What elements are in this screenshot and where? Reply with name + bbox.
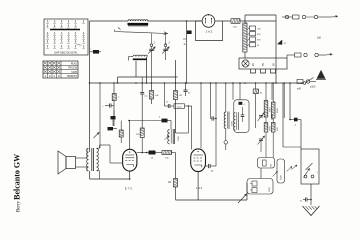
trimmer CT2 [258,136,265,152]
resistor R3 [112,83,120,126]
electrolytic C18 [289,118,301,127]
svg-text:Berry Belcanto GW: Berry Belcanto GW [13,154,22,212]
pointer arrows [287,165,298,172]
svg-text:002: 002 [271,163,273,167]
coil L4 [234,112,239,130]
svg-text:900: 900 [277,127,279,131]
svg-text:RU61: RU61 [71,62,78,65]
svg-text:+1: +1 [294,125,297,127]
wire x283 drop [282,83,284,147]
wire x218 [215,83,217,166]
coil box A [258,158,275,169]
capacitor C8 [102,104,114,109]
wire opt bottom [90,152,100,179]
resistor R21 (tall dropper) [243,21,247,58]
electrolytic C9 [94,127,118,138]
svg-text:891: 891 [257,39,261,41]
label L42 [196,186,203,190]
voltage selector taps [248,26,262,47]
wire x284 drop [283,83,285,118]
capacitor C13 blob [147,151,160,160]
trimmer CT1 [258,113,265,122]
svg-text:a40: a40 [297,89,302,91]
diode D1 [278,40,288,45]
connector tabs [251,69,276,73]
electrolytic C11 [159,117,168,123]
rectifier tube U3 (circle) [202,14,215,27]
label a30 [317,37,322,40]
tube pinout diagram box [44,19,88,55]
svg-text:166: 166 [257,28,261,30]
svg-text:0n05: 0n05 [177,106,182,108]
resistor R9 1M [168,179,178,188]
labels S E S [252,63,276,67]
svg-text:c: c [102,106,104,108]
wire tube1 grid [110,152,123,163]
capacitor C16 [241,107,245,122]
svg-text:4: 4 [159,117,161,119]
svg-text:1M: 1M [168,182,171,184]
electrolytic C9b [111,111,116,127]
tuning cap CV2 [162,33,170,56]
heater loop wire [196,21,223,41]
svg-text:3n: 3n [300,201,303,203]
svg-text:04: 04 [260,93,263,95]
capacitor C19 3n [300,198,311,203]
svg-text:TRORIST: TRORIST [67,75,78,78]
svg-text:4: 4 [244,104,246,106]
svg-text:3000: 3000 [281,174,283,180]
speaker wires [76,158,88,167]
resistor R6 20k [136,128,144,153]
svg-text:1: 1 [44,74,46,78]
svg-text:2: 2 [169,42,171,45]
svg-text:a100: a100 [310,86,316,89]
wire lamp to row2 [286,55,288,58]
capacitor C7 [164,83,174,108]
speaker LS [58,151,76,174]
title Berry Belcanto GW (rotated) [13,154,22,212]
label a40 [297,89,302,91]
label E73 [125,187,132,191]
svg-text:0005: 0005 [269,186,271,192]
svg-text:47: 47 [284,43,287,45]
wire x175 vertical [175,60,177,133]
ground symbol [303,206,320,216]
capacitor C15 [211,83,217,121]
wire osc connections [136,56,166,83]
wire x240 drop [233,83,245,100]
bus junction dots [89,82,303,84]
wire opt top [90,145,111,152]
svg-text:61: 61 [257,45,260,47]
resistor R20 [231,19,240,29]
mains fuse row 1 [282,15,338,19]
capacitor C12 [137,152,148,154]
svg-text:1: 1 [317,172,319,174]
wire box link [283,146,301,148]
mains plug P1 [316,71,326,80]
svg-text:10k: 10k [165,158,169,160]
wire y77 horizontal [118,76,178,78]
tuning cap CV1 [148,33,155,56]
coil box B [247,179,273,195]
svg-text:2W: 2W [179,95,183,97]
tube V2 UCH11 [191,149,206,200]
svg-text:DAF DBC D6 6S RL: DAF DBC D6 6S RL [54,51,78,55]
antenna coil L1 (top choke) [128,20,149,26]
earth row 3 [297,80,316,84]
small tick [118,28,121,30]
coil box L6 [264,83,272,117]
svg-text:TRUCW: TRUCW [68,67,78,70]
svg-text:0: 0 [49,74,51,78]
label 2A2 [206,30,213,34]
svg-text:S: S [272,63,275,67]
power switch box [301,149,319,184]
wire top HT line [90,20,277,22]
coil box L7 [271,83,279,118]
wire main bus [90,82,303,84]
filter box D [234,100,249,133]
coil box L9 [271,118,279,132]
wire screen vertical [117,77,119,83]
oscillator coil L2 [129,55,148,60]
wave switch arrow [238,194,247,203]
svg-text:3000: 3000 [178,135,180,141]
wire top right corner [245,15,276,83]
tube lineup table [43,61,78,78]
svg-text:.7: .7 [118,97,121,99]
osc coil L3 [224,83,234,150]
svg-text:61P6: 61P6 [71,71,77,74]
svg-text:a30: a30 [317,37,322,40]
wire below box [310,184,312,205]
wire left rail [89,21,91,152]
svg-text:c: c [90,49,92,51]
wire x272 [271,83,273,120]
svg-text:n5: n5 [166,102,169,104]
svg-text:10k: 10k [155,95,159,97]
svg-text:0,1: 0,1 [145,96,149,98]
coil box C [273,159,285,183]
wire tube2 top [176,132,189,134]
output transformer T1 [87,148,100,172]
coil box L8 [264,117,272,132]
wire box links [261,132,273,179]
IF transformer T2 [165,129,181,144]
resistor R4 [150,83,160,104]
svg-text:05: 05 [151,158,154,160]
svg-text:2: 2 [154,42,156,45]
svg-text:47: 47 [188,93,191,95]
svg-text:E 7 3: E 7 3 [125,187,132,191]
resistor R5 [174,91,184,100]
wire x290 drop [289,83,291,120]
svg-text:2 A 2: 2 A 2 [206,30,213,34]
wire x301 drop [300,120,302,150]
svg-text:991: 991 [257,34,261,36]
wire to R9 [175,153,177,179]
resistor R10 [253,83,263,128]
svg-text:S: S [252,63,255,67]
wire grid line [129,121,171,130]
wire tuning link [115,30,168,35]
mains fuse row 2 [287,53,332,57]
resistor R8 horizontal [159,151,176,160]
label a100 [310,86,316,89]
switch S1 [304,149,319,178]
wire tube1 bottom [90,178,131,180]
wire switch row link [303,78,315,85]
svg-text:PHQ: PHQ [77,45,82,47]
svg-text:4F: 4F [183,44,186,46]
dial lamp La1 [242,60,249,67]
wire x191.7 drop [191,106,193,150]
electrolytic C21 [239,102,246,106]
svg-text:E: E [262,63,265,67]
svg-text:500: 500 [233,27,237,29]
dial lamp box [239,58,287,69]
svg-text:04: 04 [211,171,214,173]
capacitor C10 blob [90,49,102,54]
boxed component [174,104,192,109]
wire C4 to R6 [141,77,143,128]
capacitor C14 [206,164,217,173]
svg-text:1: 1 [53,74,55,78]
smoothing cap C20 [183,20,192,83]
svg-text:0005: 0005 [277,108,279,113]
wire cathode bus V2 [176,183,248,200]
wire x200 [200,83,202,148]
wire x100 rail [99,83,101,148]
svg-text:L 4 2: L 4 2 [196,186,203,190]
svg-text:0000: 0000 [232,120,234,126]
capacitor C4 [140,83,148,98]
svg-text:0: 0 [58,74,60,78]
resistor R7 [119,120,130,143]
wire x188 drop [188,105,189,133]
tube V1 UCL11 [123,121,137,180]
svg-text:20k: 20k [136,134,140,136]
capacitor C6 47 [184,83,192,96]
